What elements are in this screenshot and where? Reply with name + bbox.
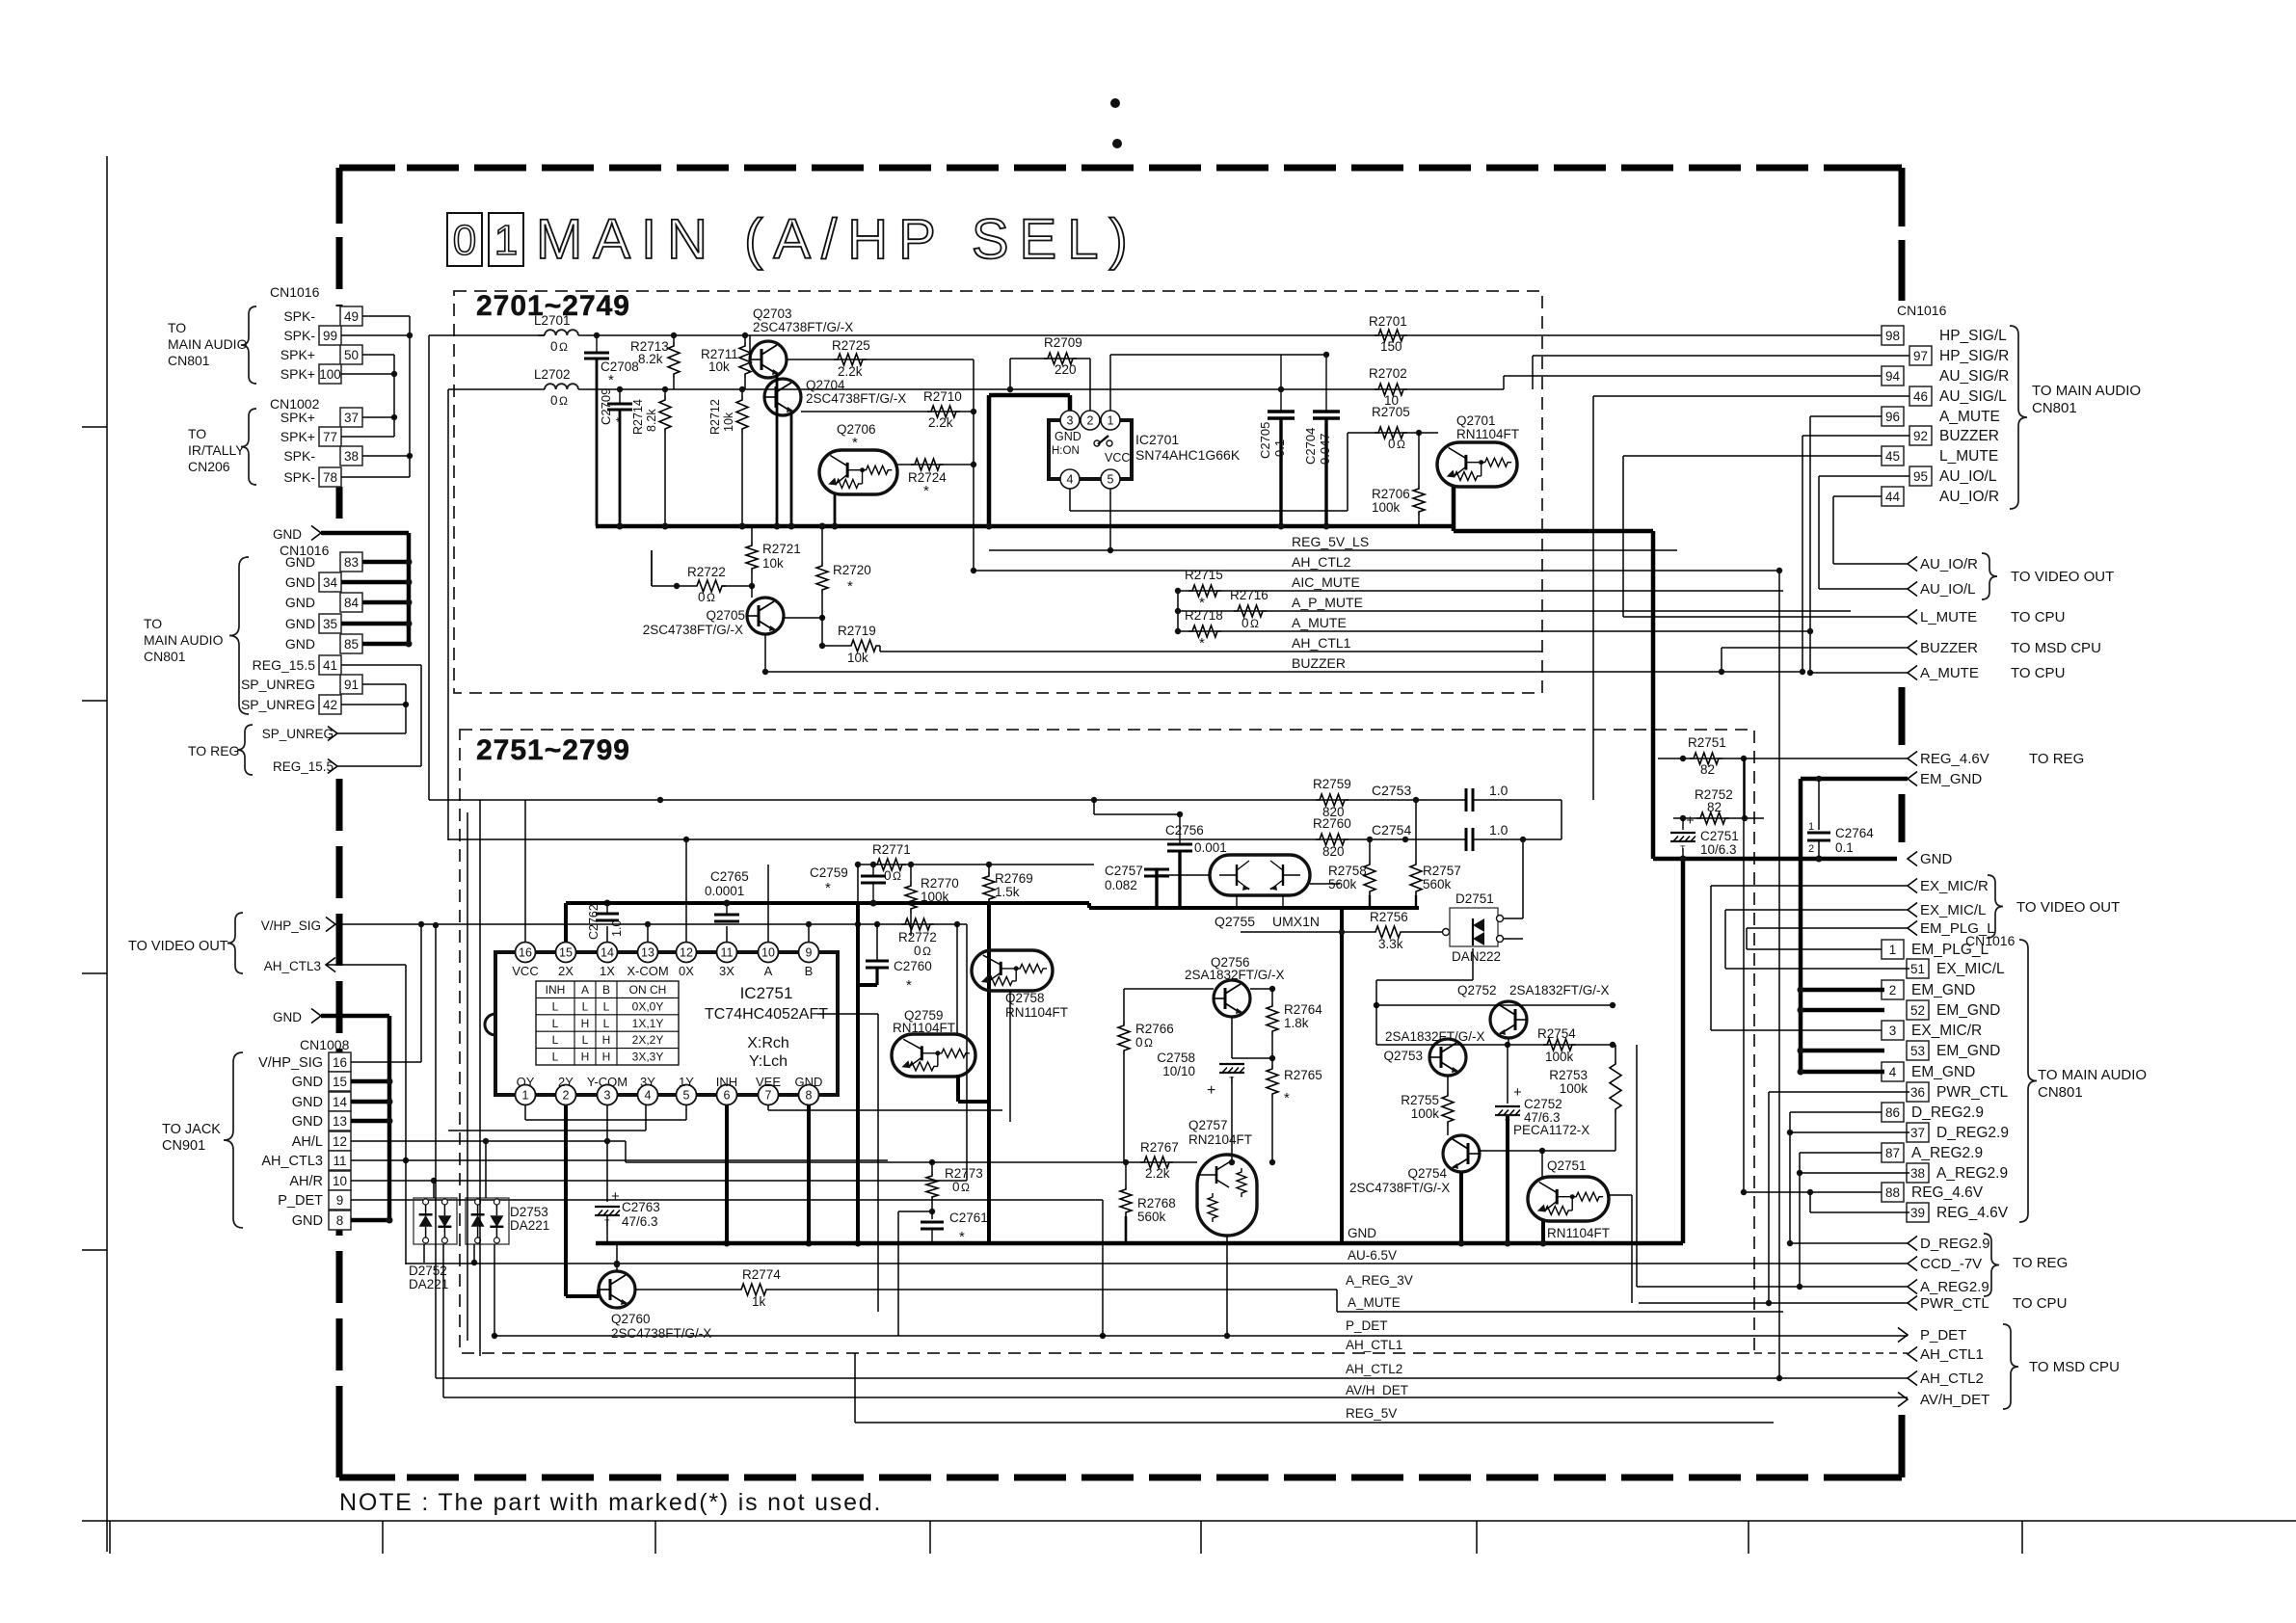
- svg-text:*: *: [923, 483, 929, 499]
- svg-text:R2755: R2755: [1401, 1093, 1439, 1107]
- svg-text:13: 13: [333, 1114, 347, 1129]
- svg-text:SP_UNREG: SP_UNREG: [241, 677, 315, 692]
- svg-text:C2709: C2709: [599, 388, 613, 425]
- svg-text:10k: 10k: [722, 412, 735, 432]
- svg-text:CN801: CN801: [2032, 400, 2077, 416]
- svg-text:P_DET: P_DET: [1346, 1318, 1388, 1333]
- svg-text:OY: OY: [517, 1075, 535, 1089]
- svg-text:1: 1: [1808, 821, 1814, 833]
- svg-text:88: 88: [1885, 1185, 1900, 1200]
- svg-text:AU_IO/R: AU_IO/R: [1939, 489, 1999, 505]
- svg-text:TO VIDEO OUT: TO VIDEO OUT: [2016, 899, 2120, 916]
- svg-text:R2773: R2773: [945, 1166, 983, 1181]
- svg-text:1.0: 1.0: [610, 920, 624, 937]
- svg-text:SPK+: SPK+: [280, 347, 315, 362]
- svg-text:1: 1: [494, 217, 518, 264]
- svg-text:R2767: R2767: [1140, 1140, 1179, 1155]
- svg-text:R2712: R2712: [708, 399, 722, 435]
- svg-text:AH_CTL1: AH_CTL1: [1292, 635, 1351, 651]
- svg-text:42: 42: [323, 698, 337, 712]
- svg-text:CN901: CN901: [162, 1138, 205, 1154]
- svg-text:SPK-: SPK-: [283, 448, 315, 464]
- svg-text:L: L: [582, 1033, 589, 1047]
- svg-text:35: 35: [323, 617, 337, 631]
- svg-text:D2753: D2753: [510, 1205, 548, 1219]
- svg-text:2751~2799: 2751~2799: [476, 734, 630, 766]
- svg-text:R2722: R2722: [687, 565, 726, 579]
- svg-text:AV/H_DET: AV/H_DET: [1920, 1392, 1989, 1408]
- svg-text:83: 83: [344, 555, 359, 570]
- svg-text:16: 16: [519, 946, 532, 960]
- svg-text:R2719: R2719: [838, 624, 876, 638]
- svg-text:Ω: Ω: [559, 340, 568, 354]
- svg-text:R2714: R2714: [631, 399, 645, 435]
- svg-text:1.0: 1.0: [1489, 822, 1508, 838]
- svg-text:TO VIDEO OUT: TO VIDEO OUT: [2011, 569, 2114, 585]
- svg-text:0: 0: [453, 217, 476, 264]
- svg-text:100k: 100k: [1545, 1050, 1574, 1064]
- svg-text:13: 13: [641, 946, 654, 960]
- svg-text:R2758: R2758: [1328, 864, 1367, 878]
- svg-text:100k: 100k: [1560, 1081, 1589, 1096]
- svg-text:0: 0: [1241, 616, 1249, 630]
- svg-text:+: +: [1686, 812, 1695, 829]
- svg-text:AU_SIG/L: AU_SIG/L: [1939, 388, 2007, 405]
- svg-text:A: A: [764, 964, 773, 978]
- svg-text:CN1016: CN1016: [1897, 303, 1947, 318]
- svg-text:GND: GND: [1055, 430, 1081, 443]
- svg-text:15: 15: [333, 1075, 347, 1089]
- svg-text:16: 16: [333, 1055, 347, 1070]
- svg-text:A: A: [581, 983, 589, 997]
- svg-text:97: 97: [1913, 349, 1928, 363]
- svg-text:Q2755: Q2755: [1215, 914, 1255, 929]
- svg-text:L2702: L2702: [534, 367, 571, 382]
- svg-text:GND: GND: [273, 527, 302, 542]
- svg-text:IR/TALLY: IR/TALLY: [188, 442, 245, 458]
- svg-text:10: 10: [761, 946, 775, 960]
- svg-text:REG_15.5: REG_15.5: [273, 759, 334, 774]
- svg-text:DA221: DA221: [510, 1218, 549, 1233]
- svg-text:3X: 3X: [719, 964, 734, 978]
- svg-text:2X: 2X: [558, 964, 574, 978]
- svg-text:R2772: R2772: [898, 930, 937, 945]
- svg-text:MAIN AUDIO: MAIN AUDIO: [144, 632, 224, 648]
- svg-text:R2702: R2702: [1369, 366, 1407, 381]
- svg-text:86: 86: [1885, 1105, 1900, 1120]
- svg-text:R2771: R2771: [872, 842, 911, 857]
- svg-text:8.2k: 8.2k: [638, 352, 663, 366]
- svg-text:98: 98: [1885, 329, 1900, 343]
- svg-text:2.2k: 2.2k: [1145, 1166, 1170, 1181]
- svg-text:0.047: 0.047: [1318, 433, 1332, 465]
- svg-text:2.2k: 2.2k: [928, 415, 953, 430]
- svg-text:100k: 100k: [1372, 500, 1401, 515]
- svg-text:TO MAIN AUDIO: TO MAIN AUDIO: [2038, 1067, 2147, 1083]
- svg-text:TO: TO: [144, 616, 162, 631]
- svg-text:R2705: R2705: [1372, 405, 1410, 419]
- svg-text:C2761: C2761: [949, 1211, 988, 1225]
- svg-text:GND: GND: [1920, 851, 1953, 867]
- svg-text:TC74HC4052AFT: TC74HC4052AFT: [705, 1006, 828, 1023]
- svg-text:Ω: Ω: [707, 591, 715, 604]
- svg-text:SP_UNREG: SP_UNREG: [262, 727, 334, 741]
- svg-text:37: 37: [344, 411, 359, 425]
- svg-text:L: L: [552, 999, 559, 1013]
- svg-text:P_DET: P_DET: [278, 1193, 323, 1209]
- svg-text:8: 8: [806, 1089, 813, 1103]
- svg-text:R2701: R2701: [1369, 314, 1407, 329]
- svg-text:AV/H_DET: AV/H_DET: [1346, 1383, 1408, 1397]
- svg-text:46: 46: [1913, 389, 1928, 404]
- svg-text:C2759: C2759: [810, 865, 848, 880]
- svg-text:C2751: C2751: [1700, 829, 1739, 843]
- svg-text:50: 50: [344, 348, 359, 362]
- svg-text:AU_IO/R: AU_IO/R: [1920, 556, 1978, 572]
- svg-text:0.001: 0.001: [1194, 840, 1227, 855]
- svg-text:52: 52: [1910, 1003, 1925, 1018]
- svg-text:+: +: [1513, 1084, 1522, 1101]
- svg-text:R2756: R2756: [1370, 910, 1408, 924]
- svg-text:L: L: [603, 1017, 610, 1030]
- svg-text:CN206: CN206: [188, 459, 230, 474]
- svg-text:GND: GND: [285, 636, 315, 652]
- svg-text:2: 2: [563, 1089, 570, 1103]
- svg-text:EX_MIC/R: EX_MIC/R: [1911, 1023, 1982, 1039]
- svg-text:RN1104FT: RN1104FT: [1456, 427, 1519, 441]
- svg-text:VCC: VCC: [512, 964, 538, 978]
- svg-text:9: 9: [336, 1193, 344, 1208]
- svg-text:GND: GND: [285, 616, 315, 631]
- svg-text:AH_CTL3: AH_CTL3: [264, 959, 321, 973]
- svg-text:100k: 100k: [921, 890, 949, 904]
- svg-text:Ω: Ω: [559, 394, 568, 408]
- svg-text:NOTE : The part with marked(*): NOTE : The part with marked(*) is not us…: [339, 1489, 882, 1516]
- svg-text:C2704: C2704: [1303, 428, 1318, 465]
- svg-text:Q2705: Q2705: [706, 608, 745, 623]
- svg-text:CN801: CN801: [168, 353, 210, 368]
- svg-text:39: 39: [1910, 1206, 1925, 1220]
- svg-text:*: *: [847, 578, 853, 595]
- svg-text:GND: GND: [292, 1095, 323, 1110]
- svg-text:34: 34: [323, 575, 338, 590]
- svg-text:H: H: [581, 1051, 590, 1064]
- svg-text:TO VIDEO OUT: TO VIDEO OUT: [128, 939, 228, 954]
- svg-text:220: 220: [1055, 362, 1077, 377]
- svg-text:2: 2: [1889, 983, 1897, 998]
- svg-text:R2716: R2716: [1230, 588, 1268, 602]
- svg-text:2: 2: [1087, 414, 1094, 428]
- svg-text:10k: 10k: [708, 359, 730, 374]
- svg-text:R2769: R2769: [995, 871, 1033, 886]
- svg-text:GND: GND: [1348, 1226, 1376, 1240]
- svg-text:BUZZER: BUZZER: [1292, 655, 1346, 671]
- svg-text:X:Rch: X:Rch: [747, 1035, 789, 1051]
- svg-text:EX_MIC/L: EX_MIC/L: [1936, 961, 2005, 977]
- svg-text:8.2k: 8.2k: [645, 409, 658, 432]
- svg-text:REG_5V_LS: REG_5V_LS: [1292, 534, 1369, 549]
- svg-text:CN801: CN801: [2038, 1084, 2083, 1101]
- svg-text:HP_SIG/R: HP_SIG/R: [1939, 348, 2009, 364]
- svg-text:150: 150: [1380, 339, 1402, 354]
- svg-text:Ω: Ω: [1144, 1036, 1153, 1050]
- svg-text:Q2753: Q2753: [1383, 1049, 1423, 1063]
- svg-text:37: 37: [1910, 1126, 1925, 1140]
- svg-text:CN1016: CN1016: [270, 284, 320, 300]
- svg-text:85: 85: [344, 637, 359, 652]
- svg-text:EM_GND: EM_GND: [1911, 1064, 1975, 1080]
- svg-text:R2759: R2759: [1313, 777, 1351, 791]
- svg-text:82: 82: [1700, 762, 1715, 777]
- svg-text:H:ON: H:ON: [1052, 445, 1080, 457]
- svg-text:ON CH: ON CH: [629, 983, 667, 997]
- svg-text:BUZZER: BUZZER: [1920, 640, 1978, 656]
- svg-text:5: 5: [683, 1089, 690, 1103]
- svg-text:L: L: [552, 1017, 559, 1030]
- svg-text:2X,2Y: 2X,2Y: [632, 1033, 664, 1047]
- svg-text:10k: 10k: [762, 556, 784, 571]
- svg-text:0: 0: [698, 590, 706, 604]
- svg-text:1.0: 1.0: [1489, 783, 1508, 798]
- svg-text:DAN222: DAN222: [1452, 949, 1501, 964]
- svg-text:Q2752: Q2752: [1457, 983, 1497, 998]
- svg-text:SPK+: SPK+: [280, 366, 315, 382]
- svg-text:1Y: 1Y: [679, 1075, 694, 1089]
- svg-text:R2753: R2753: [1549, 1068, 1588, 1082]
- svg-text:R2718: R2718: [1185, 608, 1223, 623]
- svg-text:14: 14: [333, 1095, 348, 1109]
- svg-text:AH_CTL2: AH_CTL2: [1292, 554, 1351, 570]
- svg-text:2SC4738FT/G/-X: 2SC4738FT/G/-X: [753, 320, 853, 334]
- svg-text:R2720: R2720: [833, 563, 871, 577]
- svg-text:A_MUTE: A_MUTE: [1292, 615, 1347, 630]
- svg-text:SPK-: SPK-: [283, 328, 315, 343]
- svg-text:1: 1: [1108, 414, 1114, 428]
- svg-text:H: H: [602, 1033, 611, 1047]
- svg-text:2SC4738FT/G/-X: 2SC4738FT/G/-X: [611, 1326, 711, 1341]
- svg-text:C2762: C2762: [587, 904, 601, 940]
- svg-text:14: 14: [601, 946, 614, 960]
- svg-text:0.1: 0.1: [1835, 840, 1854, 855]
- svg-text:TO: TO: [188, 426, 206, 441]
- svg-text:HP_SIG/L: HP_SIG/L: [1939, 328, 2007, 344]
- svg-text:Ω: Ω: [1397, 438, 1405, 451]
- svg-text:11: 11: [721, 946, 734, 960]
- svg-text:Ω: Ω: [922, 945, 931, 958]
- svg-text:REG_5V: REG_5V: [1346, 1406, 1397, 1421]
- svg-text:GND: GND: [273, 1010, 302, 1024]
- svg-text:7: 7: [765, 1089, 772, 1103]
- svg-text:IC2751: IC2751: [740, 984, 793, 1002]
- svg-text:AH_CTL3: AH_CTL3: [261, 1154, 323, 1169]
- svg-text:TO: TO: [168, 320, 186, 335]
- svg-text:AU_IO/L: AU_IO/L: [1939, 468, 1997, 485]
- svg-text:38: 38: [344, 449, 359, 464]
- svg-text:C2757: C2757: [1105, 864, 1143, 878]
- svg-text:+: +: [611, 1188, 620, 1205]
- svg-text:820: 820: [1322, 844, 1345, 859]
- svg-text:2.2k: 2.2k: [838, 364, 863, 379]
- svg-text:C2753: C2753: [1372, 783, 1411, 798]
- svg-text:DA221: DA221: [409, 1277, 448, 1291]
- svg-text:A_REG2.9: A_REG2.9: [1911, 1145, 1983, 1161]
- svg-text:L2701: L2701: [534, 313, 571, 328]
- svg-text:EX_MIC/R: EX_MIC/R: [1920, 878, 1989, 894]
- svg-text:51: 51: [1910, 962, 1925, 976]
- svg-text:45: 45: [1885, 449, 1900, 464]
- svg-text:1: 1: [522, 1089, 529, 1103]
- svg-text:CN801: CN801: [144, 649, 186, 664]
- svg-text:PECA1172-X: PECA1172-X: [1513, 1123, 1589, 1137]
- svg-text:TO CPU: TO CPU: [2011, 665, 2065, 681]
- svg-text:2SA1832FT/G/-X: 2SA1832FT/G/-X: [1185, 968, 1285, 982]
- svg-text:R2725: R2725: [832, 338, 870, 353]
- svg-text:L_MUTE: L_MUTE: [1920, 609, 1977, 625]
- svg-text:Y:Lch: Y:Lch: [749, 1053, 788, 1070]
- svg-text:MAIN AUDIO: MAIN AUDIO: [168, 336, 248, 352]
- svg-text:GND: GND: [292, 1075, 323, 1090]
- svg-text:SPK+: SPK+: [280, 410, 315, 425]
- svg-text:8: 8: [336, 1213, 344, 1228]
- svg-text:53: 53: [1910, 1044, 1925, 1058]
- svg-text:C2764: C2764: [1835, 826, 1874, 840]
- svg-text:11: 11: [333, 1154, 346, 1168]
- svg-text:+: +: [1207, 1082, 1215, 1099]
- svg-text:EM_PLG_L: EM_PLG_L: [1911, 942, 1989, 958]
- svg-text:R2721: R2721: [762, 542, 801, 556]
- svg-text:R2765: R2765: [1284, 1068, 1322, 1082]
- svg-text:UMX1N: UMX1N: [1272, 914, 1320, 929]
- svg-text:2SA1832FT/G/-X: 2SA1832FT/G/-X: [1509, 983, 1610, 998]
- svg-text:PWR_CTL: PWR_CTL: [1936, 1084, 2008, 1101]
- svg-text:78: 78: [323, 470, 337, 485]
- svg-text:91: 91: [344, 678, 359, 692]
- svg-text:R2757: R2757: [1423, 864, 1461, 878]
- svg-text:*: *: [608, 372, 614, 388]
- svg-text:12: 12: [333, 1134, 347, 1149]
- svg-text:92: 92: [1913, 429, 1928, 443]
- svg-text:*: *: [1284, 1090, 1290, 1106]
- svg-text:L: L: [603, 999, 610, 1013]
- svg-text:100k: 100k: [1411, 1106, 1440, 1121]
- svg-text:AH/R: AH/R: [289, 1174, 323, 1189]
- svg-text:H: H: [602, 1051, 611, 1064]
- svg-text:GND: GND: [292, 1213, 323, 1229]
- svg-text:TO CPU: TO CPU: [2013, 1295, 2067, 1312]
- svg-text:RN2104FT: RN2104FT: [1188, 1132, 1252, 1147]
- svg-text:D2752: D2752: [409, 1264, 447, 1278]
- svg-text:Q2760: Q2760: [611, 1312, 651, 1326]
- svg-text:A_REG_3V: A_REG_3V: [1346, 1273, 1413, 1288]
- svg-text:SP_UNREG: SP_UNREG: [241, 697, 315, 712]
- svg-text:0.1: 0.1: [1272, 439, 1287, 457]
- svg-text:TO JACK: TO JACK: [162, 1122, 221, 1137]
- svg-text:GND: GND: [285, 554, 315, 570]
- svg-text:0: 0: [1135, 1035, 1143, 1050]
- svg-text:L_MUTE: L_MUTE: [1939, 448, 1998, 465]
- svg-text:100: 100: [319, 367, 341, 382]
- svg-text:R2709: R2709: [1044, 335, 1082, 350]
- svg-text:4: 4: [1889, 1065, 1897, 1079]
- svg-text:L: L: [552, 1051, 559, 1064]
- svg-text:A_REG2.9: A_REG2.9: [1920, 1279, 1989, 1295]
- svg-text:R2706: R2706: [1372, 487, 1410, 501]
- svg-text:R2770: R2770: [921, 876, 959, 891]
- svg-text:15: 15: [559, 946, 573, 960]
- svg-text:R2715: R2715: [1185, 568, 1223, 582]
- svg-text:5: 5: [1108, 473, 1114, 487]
- svg-text:A_REG2.9: A_REG2.9: [1936, 1165, 2008, 1182]
- svg-text:D_REG2.9: D_REG2.9: [1920, 1236, 1990, 1252]
- svg-text:IC2701: IC2701: [1135, 432, 1179, 447]
- svg-text:GND: GND: [795, 1075, 823, 1089]
- svg-text:*: *: [613, 417, 627, 422]
- svg-text:TO MSD CPU: TO MSD CPU: [2011, 640, 2101, 656]
- svg-text:V/HP_SIG: V/HP_SIG: [261, 918, 321, 933]
- svg-text:49: 49: [344, 309, 359, 324]
- svg-text:94: 94: [1885, 369, 1901, 384]
- svg-text:C2708: C2708: [601, 359, 639, 374]
- svg-text:INH: INH: [546, 983, 566, 997]
- svg-text:R2768: R2768: [1137, 1196, 1176, 1211]
- svg-text:C2765: C2765: [710, 869, 749, 884]
- svg-text:R2760: R2760: [1313, 816, 1351, 831]
- svg-text:Ω: Ω: [1250, 617, 1259, 630]
- svg-text:SPK-: SPK-: [283, 308, 315, 324]
- svg-text:99: 99: [323, 329, 337, 343]
- svg-text:Q2754: Q2754: [1407, 1166, 1447, 1181]
- svg-text:3.3k: 3.3k: [1378, 937, 1403, 951]
- svg-text:R2774: R2774: [742, 1267, 781, 1282]
- svg-text:1.8k: 1.8k: [1284, 1016, 1309, 1030]
- svg-text:36: 36: [1910, 1085, 1925, 1100]
- svg-text:*: *: [852, 435, 858, 451]
- svg-text:REG_4.6V: REG_4.6V: [1920, 751, 1989, 767]
- svg-text:AH_CTL2: AH_CTL2: [1920, 1370, 1984, 1387]
- svg-text:3: 3: [1889, 1024, 1897, 1038]
- svg-text:0X: 0X: [679, 964, 694, 978]
- svg-text:TO REG: TO REG: [2029, 751, 2084, 767]
- svg-text:AU-6.5V: AU-6.5V: [1348, 1248, 1397, 1263]
- svg-text:C2752: C2752: [1524, 1097, 1562, 1111]
- svg-text:SPK-: SPK-: [283, 469, 315, 485]
- svg-text:TO MAIN AUDIO: TO MAIN AUDIO: [2032, 383, 2141, 399]
- svg-text:*: *: [825, 880, 831, 896]
- svg-text:1.5k: 1.5k: [995, 885, 1020, 899]
- svg-text:C2754: C2754: [1372, 822, 1411, 838]
- svg-text:Q2751: Q2751: [1547, 1158, 1587, 1173]
- svg-text:96: 96: [1885, 410, 1900, 424]
- svg-text:AU_SIG/R: AU_SIG/R: [1939, 368, 2009, 385]
- svg-text:1X,1Y: 1X,1Y: [632, 1017, 664, 1030]
- svg-text:R2751: R2751: [1688, 735, 1726, 750]
- svg-text:TO REG: TO REG: [2013, 1255, 2068, 1271]
- svg-text:CCD_-7V: CCD_-7V: [1920, 1256, 1982, 1272]
- svg-text:EM_GND: EM_GND: [1911, 982, 1975, 998]
- svg-text:TO CPU: TO CPU: [2011, 609, 2065, 625]
- svg-text:0: 0: [952, 1180, 960, 1194]
- svg-text:R2766: R2766: [1135, 1022, 1174, 1036]
- svg-text:0: 0: [914, 944, 921, 958]
- svg-text:2SC4738FT/G/-X: 2SC4738FT/G/-X: [643, 623, 743, 637]
- svg-text:Y-COM: Y-COM: [587, 1075, 627, 1089]
- svg-text:TO MSD CPU: TO MSD CPU: [2029, 1359, 2120, 1375]
- svg-text:0: 0: [550, 339, 558, 354]
- svg-text:GND: GND: [285, 595, 315, 610]
- svg-text:C2756: C2756: [1165, 823, 1204, 838]
- svg-text:GND: GND: [292, 1114, 323, 1130]
- svg-text:B: B: [602, 983, 610, 997]
